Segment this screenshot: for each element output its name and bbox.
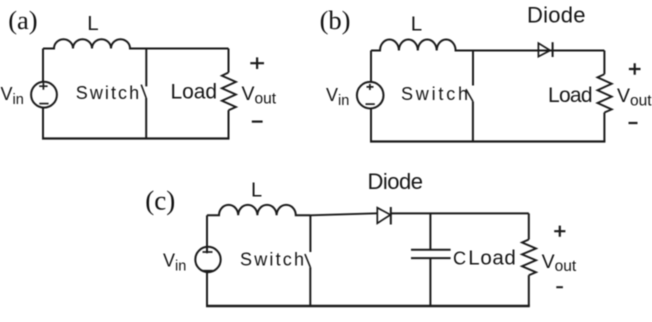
svg-text:Diode: Diode bbox=[368, 169, 424, 194]
inductor L2 (circuit b) bbox=[371, 40, 604, 51]
inductor L3 (circuit c) bbox=[207, 205, 310, 215]
svg-text:Vin: Vin bbox=[326, 85, 349, 109]
plus mark inside a source bbox=[39, 83, 47, 90]
svg-text:Vout: Vout bbox=[242, 83, 277, 107]
svg-text:L: L bbox=[87, 12, 98, 35]
switch S (circuit c): upper wire bbox=[309, 215, 311, 252]
switch S (circuit b): lower wire bbox=[472, 101, 474, 141]
wire: c left top vertical bbox=[206, 215, 208, 253]
capacitor C (circuit c): top stub bbox=[429, 213, 431, 249]
svg-text:Switch: Switch bbox=[76, 83, 139, 103]
resistor Load (circuit b) zigzag bbox=[598, 74, 612, 112]
source V_in (circuit c) circle bbox=[195, 247, 220, 272]
svg-text:L: L bbox=[251, 180, 262, 202]
plus mark a output bbox=[250, 57, 264, 69]
wire: a bottom horizontal bbox=[42, 137, 230, 139]
minus mark inside b source bbox=[366, 103, 375, 105]
wire: a left bottom vertical bbox=[42, 108, 44, 139]
svg-text:L: L bbox=[411, 13, 422, 36]
wire: c slanted to diode bbox=[310, 213, 377, 215]
switch S (circuit c): lower wire bbox=[309, 267, 311, 306]
source V_in (circuit a) circle bbox=[31, 82, 57, 108]
switch S (circuit b): upper wire bbox=[472, 51, 474, 86]
wire: c top right horizontal bbox=[391, 212, 529, 214]
diode D1 (circuit b) cathode bar bbox=[552, 42, 554, 57]
svg-text:C: C bbox=[453, 248, 466, 268]
switch S (circuit a): upper wire bbox=[145, 49, 147, 87]
inductor L1 (circuit a) bbox=[43, 39, 229, 48]
minus mark b output bbox=[629, 122, 638, 124]
resistor Load (circuit c) zigzag bbox=[522, 240, 536, 276]
switch S (circuit a): blade bbox=[141, 85, 146, 98]
wire: b left bottom vertical bbox=[370, 108, 372, 141]
wire: c right vertical upper bbox=[528, 213, 530, 239]
capacitor C (circuit c): top plate bbox=[411, 249, 451, 251]
plus mark c output bbox=[554, 226, 565, 237]
switch S (circuit c): blade bbox=[305, 254, 310, 267]
minus mark a output bbox=[252, 120, 263, 122]
svg-text:(b): (b) bbox=[320, 5, 351, 35]
svg-text:Vin: Vin bbox=[163, 250, 186, 274]
svg-text:Diode: Diode bbox=[527, 3, 586, 28]
plus mark inside c source bbox=[203, 251, 213, 253]
minus mark c output bbox=[556, 286, 563, 288]
svg-text:Vin: Vin bbox=[1, 84, 24, 108]
svg-text:Load: Load bbox=[468, 246, 516, 269]
wire: c right vertical lower bbox=[528, 275, 530, 306]
svg-text:Switch: Switch bbox=[401, 84, 468, 104]
diode D2 (circuit c) triangle bbox=[377, 208, 390, 224]
svg-text:Load: Load bbox=[171, 81, 218, 104]
minus mark inside c source bbox=[202, 270, 213, 272]
wire: b right vertical lower bbox=[603, 113, 605, 142]
svg-text:Vout: Vout bbox=[542, 251, 577, 275]
wire: c bottom horizontal bbox=[206, 305, 530, 307]
switch S (circuit a): lower wire bbox=[145, 98, 147, 139]
wire: a left top vertical bbox=[42, 49, 44, 82]
minus mark inside a source bbox=[39, 103, 48, 105]
capacitor C (circuit c): bottom stub bbox=[429, 259, 431, 306]
source V_in (circuit b) circle bbox=[357, 82, 384, 109]
plus mark inside b source bbox=[367, 84, 374, 90]
wire: c left bottom vertical bbox=[206, 272, 208, 306]
diode D2 (circuit c) cathode bar bbox=[390, 207, 392, 225]
svg-text:(a): (a) bbox=[8, 5, 37, 35]
svg-text:(c): (c) bbox=[145, 186, 175, 216]
diode D1 (circuit b) triangle bbox=[538, 43, 550, 56]
wire: b right vertical upper bbox=[603, 51, 605, 75]
wire: b left top vertical bbox=[370, 51, 372, 83]
resistor Load (circuit a) zigzag bbox=[222, 73, 236, 111]
svg-text:Vout: Vout bbox=[617, 85, 652, 109]
plus mark b output bbox=[629, 63, 641, 75]
wire: a right vertical lower bbox=[228, 110, 230, 138]
wire: a right vertical upper bbox=[228, 49, 230, 73]
wire: b bottom horizontal bbox=[370, 140, 605, 142]
svg-text:Switch: Switch bbox=[240, 250, 304, 270]
switch S (circuit b): blade bbox=[466, 89, 473, 101]
capacitor C (circuit c): bottom plate bbox=[411, 257, 451, 259]
svg-text:Load: Load bbox=[548, 84, 593, 107]
